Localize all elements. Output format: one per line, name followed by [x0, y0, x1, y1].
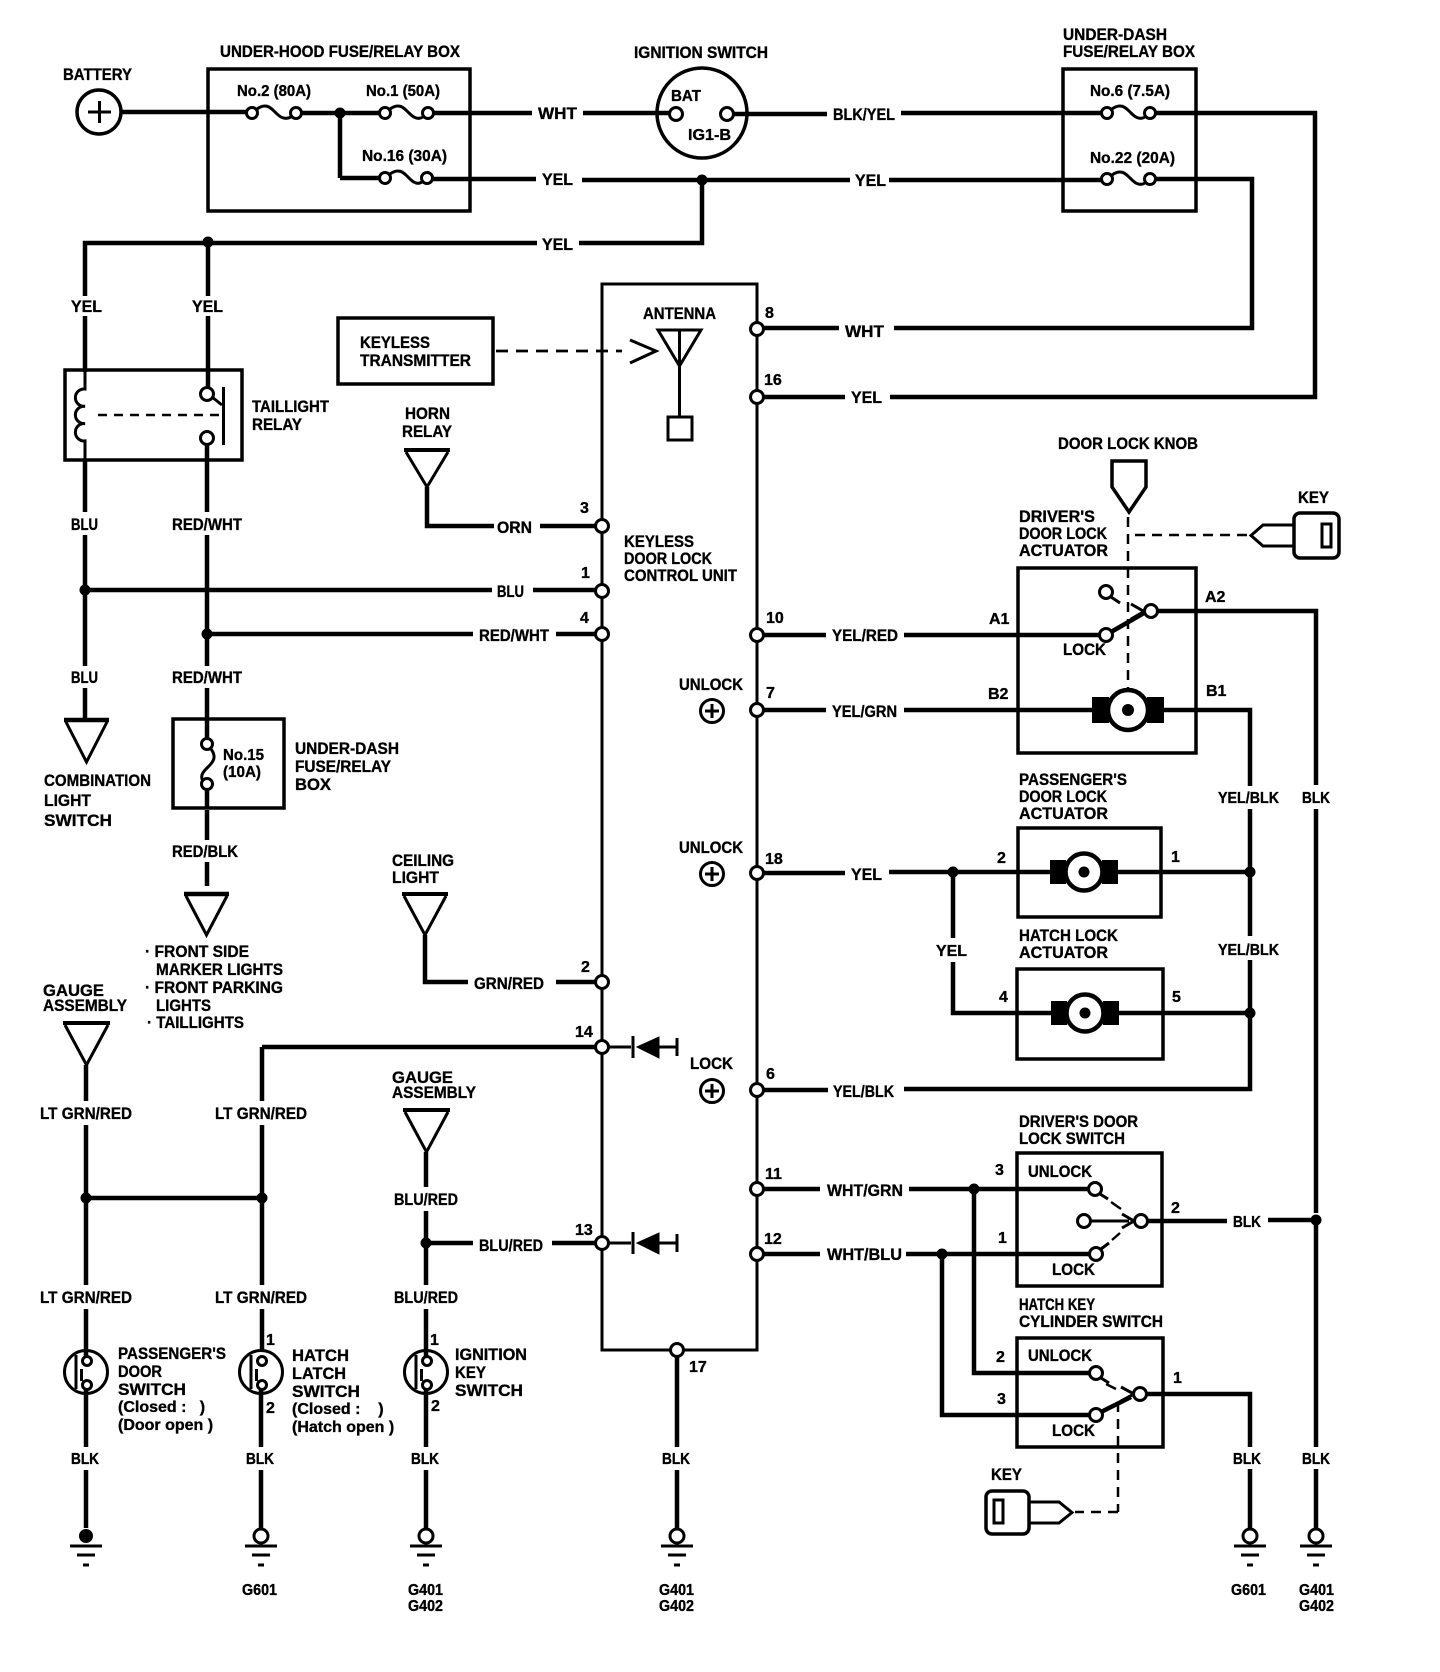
svg-text:SWITCH: SWITCH: [44, 811, 112, 830]
svg-text:G601: G601: [242, 1582, 277, 1599]
wire junction down to fuse16: [338, 113, 343, 178]
node junction row243: [203, 237, 214, 248]
svg-text:1: 1: [581, 565, 590, 582]
svg-text:ORN: ORN: [497, 518, 532, 537]
svg-text:LOCK: LOCK: [1063, 640, 1107, 659]
svg-text:LATCH: LATCH: [292, 1364, 346, 1383]
svg-text:1: 1: [1173, 1370, 1182, 1387]
svg-text:YEL/BLK: YEL/BLK: [1218, 942, 1279, 959]
svg-text:RELAY: RELAY: [252, 415, 303, 434]
wire WHT fuse1 to ignition: [433, 104, 670, 123]
dashed radio link transmitter to antenna: [496, 340, 656, 363]
fuse No.15 (10A): [202, 719, 265, 808]
horn relay: [402, 404, 453, 487]
front lights list: [145, 942, 283, 1032]
unlock symbol lower: [679, 838, 744, 886]
svg-text:BOX: BOX: [295, 775, 332, 794]
pin 1: [581, 565, 609, 598]
svg-text:HORN: HORN: [405, 404, 450, 423]
svg-text:CYLINDER SWITCH: CYLINDER SWITCH: [1019, 1312, 1163, 1331]
pin 17: [671, 1344, 707, 1377]
pin 11: [751, 1166, 783, 1196]
pin 12: [751, 1231, 782, 1261]
ignition switch: [634, 43, 768, 158]
passenger actuator motor: [1050, 854, 1118, 891]
svg-text:BLK: BLK: [1233, 1214, 1261, 1231]
key upper: [1251, 488, 1339, 558]
svg-text:IGNITION: IGNITION: [455, 1345, 527, 1364]
svg-text:2: 2: [1171, 1200, 1180, 1217]
svg-text:YEL: YEL: [851, 388, 882, 407]
wire A2 to BLK column: [1158, 589, 1316, 785]
hatch lock actuator: [1017, 926, 1163, 1059]
svg-text:TRANSMITTER: TRANSMITTER: [360, 351, 471, 370]
svg-text:KEY: KEY: [991, 1465, 1023, 1484]
node junction YEL/BLK x1250 row1013: [1245, 1008, 1256, 1019]
pin 2: [581, 959, 609, 989]
svg-text:5: 5: [1172, 989, 1181, 1006]
svg-text:6: 6: [766, 1066, 775, 1083]
svg-text:BLK: BLK: [1302, 1451, 1330, 1468]
combination light switch arrow: [44, 720, 151, 830]
node junction YEL/BLK x1250 row872: [1245, 867, 1256, 878]
wire fuse2 to junction: [301, 111, 340, 116]
svg-text:BLK: BLK: [246, 1451, 274, 1468]
svg-text:MARKER LIGHTS: MARKER LIGHTS: [156, 960, 283, 979]
wire YEL right drop to relay switch: [192, 242, 223, 390]
wire row1198 connecting columns: [86, 1196, 262, 1201]
svg-text:FUSE/RELAY: FUSE/RELAY: [295, 757, 392, 776]
node junction under-hood: [335, 108, 346, 119]
svg-text:16: 16: [764, 372, 782, 389]
svg-text:BLK: BLK: [662, 1451, 690, 1468]
svg-text:ACTUATOR: ACTUATOR: [1019, 943, 1108, 962]
svg-text:BLU: BLU: [71, 515, 98, 534]
svg-text:14: 14: [575, 1024, 593, 1041]
svg-text:· FRONT PARKING: · FRONT PARKING: [145, 978, 283, 997]
svg-text:· FRONT SIDE: · FRONT SIDE: [145, 942, 249, 961]
svg-text:KEYLESS: KEYLESS: [360, 333, 430, 352]
wire GRN/RED ceiling light to pin2: [425, 935, 595, 993]
svg-text:17: 17: [689, 1359, 707, 1376]
svg-text:ASSEMBLY: ASSEMBLY: [43, 996, 128, 1015]
wire YEL/BLK down and left to pin6: [764, 1013, 1250, 1101]
wire pin14 row to control unit: [262, 1045, 595, 1050]
svg-text:4: 4: [580, 610, 589, 627]
svg-text:BAT: BAT: [671, 88, 701, 105]
svg-text:SWITCH: SWITCH: [118, 1380, 186, 1399]
svg-text:LT GRN/RED: LT GRN/RED: [215, 1104, 307, 1123]
wire battery to fuse box: [121, 110, 247, 115]
fuse No.16 (30A): [340, 148, 447, 184]
wire BLK column lower segment: [1302, 1220, 1330, 1528]
diode at pin 14: [609, 1036, 677, 1058]
taillight relay dashed actuation line: [98, 414, 221, 417]
wire BLK ignition key switch to ground: [411, 1389, 439, 1528]
hatch actuator motor: [1051, 995, 1119, 1032]
wire BLK/YEL ignition to under-dash fuse box: [734, 105, 1101, 124]
svg-text:COMBINATION: COMBINATION: [44, 771, 151, 790]
svg-text:RED/WHT: RED/WHT: [172, 668, 243, 687]
svg-text:No.22 (20A): No.22 (20A): [1090, 150, 1175, 167]
svg-text:2: 2: [997, 850, 1006, 867]
fuse No.22 (20A): [1090, 150, 1175, 185]
wire hatch key switch pin1 BLK to ground: [1147, 1370, 1261, 1528]
battery: [63, 65, 133, 134]
pin 4: [580, 610, 609, 641]
driver's actuator motor: [1092, 690, 1164, 730]
hatch latch switch: [240, 1332, 395, 1436]
ground G601 hatch latch: [242, 1529, 277, 1599]
wire RED/WHT to pin4: [207, 626, 595, 645]
svg-text:YEL: YEL: [542, 170, 573, 189]
svg-text:BLK: BLK: [1233, 1451, 1261, 1468]
front lights arrow: [184, 894, 229, 935]
wire LT GRN/RED mid column from pin14 row: [215, 1047, 307, 1352]
ceiling light: [392, 851, 454, 935]
svg-text:B1: B1: [1206, 683, 1227, 700]
svg-text:DOOR LOCK KNOB: DOOR LOCK KNOB: [1058, 434, 1198, 453]
svg-text:WHT/BLU: WHT/BLU: [827, 1245, 902, 1264]
svg-text:4: 4: [999, 989, 1008, 1006]
wire YEL/BLK column passenger to hatch: [1218, 872, 1279, 1013]
driver's door lock switch: [1017, 1112, 1162, 1286]
svg-text:BLK: BLK: [411, 1451, 439, 1468]
svg-text:G401: G401: [408, 1582, 443, 1599]
driver's door lock switch contacts: [1078, 1183, 1148, 1261]
pin 7: [751, 685, 776, 717]
node junction BLU/RED row1243: [421, 1238, 432, 1249]
svg-text:No.6 (7.5A): No.6 (7.5A): [1090, 83, 1170, 100]
svg-text:ANTENNA: ANTENNA: [643, 304, 716, 323]
svg-text:IG1-B: IG1-B: [688, 127, 731, 144]
svg-text:UNDER-HOOD FUSE/RELAY BOX: UNDER-HOOD FUSE/RELAY BOX: [220, 42, 461, 61]
svg-text:G402: G402: [659, 1598, 694, 1615]
svg-text:WHT: WHT: [538, 104, 578, 123]
svg-text:ACTUATOR: ACTUATOR: [1019, 541, 1108, 560]
svg-text:G401: G401: [659, 1582, 694, 1599]
node junction BLU row590: [80, 585, 91, 596]
svg-text:1: 1: [1171, 849, 1180, 866]
svg-text:YEL: YEL: [936, 943, 967, 960]
svg-text:1: 1: [430, 1332, 439, 1349]
svg-text:ASSEMBLY: ASSEMBLY: [392, 1083, 477, 1102]
svg-text:SWITCH: SWITCH: [292, 1382, 360, 1401]
taillight relay switch: [201, 387, 224, 445]
svg-text:BLU: BLU: [497, 582, 524, 601]
svg-text:BLU/RED: BLU/RED: [394, 1288, 458, 1307]
svg-text:KEY: KEY: [455, 1363, 487, 1382]
svg-text:G402: G402: [1299, 1598, 1334, 1615]
svg-text:LT GRN/RED: LT GRN/RED: [40, 1288, 132, 1307]
svg-text:UNLOCK: UNLOCK: [679, 838, 744, 857]
svg-text:DOOR: DOOR: [118, 1362, 162, 1381]
wire YEL/RED pin10 to A1: [764, 611, 1100, 645]
ignition key switch: [405, 1332, 528, 1415]
under-dash fuse/relay box No.15: [173, 719, 399, 808]
wire B1 to YEL/BLK column: [1164, 683, 1279, 868]
svg-text:BLK/YEL: BLK/YEL: [833, 105, 895, 124]
wire BLU/RED to pin13: [426, 1236, 595, 1255]
svg-text:No.2 (80A): No.2 (80A): [237, 83, 311, 100]
svg-text:7: 7: [766, 685, 775, 702]
svg-text:A1: A1: [989, 611, 1010, 628]
wire fuse6 right and down to pin16 YEL: [764, 113, 1315, 407]
diode at pin 13: [609, 1232, 677, 1254]
svg-text:(Closed : ): (Closed : ): [118, 1399, 205, 1416]
wire YEL junction down and left: [579, 180, 702, 243]
wire YEL x953 down to hatch actuator: [936, 872, 1052, 1013]
svg-text:TAILLIGHT: TAILLIGHT: [252, 397, 330, 416]
svg-text:3: 3: [580, 500, 589, 517]
wire WHT/GRN x974 down to hatch key switch: [974, 1189, 1089, 1373]
svg-text:2: 2: [266, 1400, 275, 1417]
wire YEL/GRN pin7 to B2: [764, 686, 1093, 721]
wire ORN horn relay to pin3: [427, 487, 595, 537]
svg-text:(Door open ): (Door open ): [118, 1417, 213, 1434]
wire BLU/RED column: [394, 1152, 458, 1357]
wire junction to fuse1: [340, 111, 380, 116]
svg-text:10: 10: [766, 610, 784, 627]
passenger's door switch: [65, 1344, 227, 1434]
antenna: [643, 304, 716, 440]
svg-text:2: 2: [431, 1398, 440, 1415]
hatch key cylinder switch: [1017, 1295, 1163, 1447]
svg-text:YEL: YEL: [542, 235, 573, 254]
svg-text:(Hatch open ): (Hatch open ): [292, 1419, 394, 1436]
node YEL junction: [697, 175, 708, 186]
svg-text:G601: G601: [1231, 1582, 1266, 1599]
key lower: [986, 1465, 1072, 1534]
svg-text:RELAY: RELAY: [402, 422, 453, 441]
svg-text:(Closed : ): (Closed : ): [292, 1401, 384, 1418]
svg-text:YEL: YEL: [192, 297, 223, 316]
pin 8: [751, 305, 775, 336]
svg-text:No.16 (30A): No.16 (30A): [362, 148, 447, 165]
svg-text:LOCK: LOCK: [690, 1054, 734, 1073]
ground G401/G402 pin17: [659, 1529, 694, 1615]
wire WHT/BLU pin12 to switch: [764, 1230, 1090, 1264]
svg-text:LT GRN/RED: LT GRN/RED: [40, 1104, 132, 1123]
pin 16: [751, 372, 782, 404]
driver's door lock actuator: [1018, 507, 1196, 753]
wire BLK hatch latch switch to ground: [246, 1389, 274, 1528]
svg-text:RED/WHT: RED/WHT: [172, 515, 243, 534]
svg-text:11: 11: [765, 1166, 782, 1183]
svg-text:IGNITION SWITCH: IGNITION SWITCH: [634, 43, 768, 62]
svg-text:ACTUATOR: ACTUATOR: [1019, 804, 1108, 823]
ground passenger door switch: [70, 1529, 102, 1565]
wire BLK column label: [1302, 790, 1330, 1213]
wire BLK passenger door switch to ground: [71, 1389, 99, 1528]
svg-text:8: 8: [765, 305, 774, 322]
svg-text:YEL/BLK: YEL/BLK: [1218, 790, 1279, 807]
wire BLU to pin1: [85, 582, 595, 601]
pin 18: [751, 851, 783, 880]
svg-text:UNLOCK: UNLOCK: [679, 675, 744, 694]
svg-text:3: 3: [995, 1162, 1004, 1179]
svg-text:A2: A2: [1205, 589, 1226, 606]
driver's actuator switch: [1063, 586, 1158, 660]
wire passenger pin1 to YEL/BLK column: [1118, 849, 1251, 872]
wire WHT/BLU x942 down to hatch key switch: [942, 1254, 1090, 1415]
svg-text:(10A): (10A): [223, 764, 261, 781]
svg-text:BLU/RED: BLU/RED: [479, 1236, 543, 1255]
svg-text:LIGHT: LIGHT: [392, 868, 440, 887]
svg-text:· TAILLIGHTS: · TAILLIGHTS: [147, 1013, 244, 1032]
svg-text:12: 12: [764, 1231, 782, 1248]
svg-text:RED/WHT: RED/WHT: [479, 626, 550, 645]
passenger's door lock actuator: [1018, 770, 1161, 917]
node junction mid row1198: [257, 1193, 268, 1204]
svg-text:GRN/RED: GRN/RED: [474, 974, 544, 993]
svg-text:2: 2: [996, 1349, 1005, 1366]
keyless door lock control unit box: [602, 284, 757, 1350]
svg-text:B2: B2: [988, 686, 1009, 703]
dashed key linkage lower: [1075, 1402, 1118, 1512]
gauge assembly mid: [392, 1068, 477, 1152]
svg-text:2: 2: [581, 959, 590, 976]
keyless transmitter: [338, 318, 493, 384]
svg-text:RED/BLK: RED/BLK: [172, 842, 239, 861]
svg-text:SWITCH: SWITCH: [455, 1381, 523, 1400]
pin 13: [575, 1222, 609, 1250]
svg-text:LOCK SWITCH: LOCK SWITCH: [1019, 1129, 1125, 1148]
node junction WHT/GRN x974: [969, 1184, 980, 1195]
wire YEL pin18 to passenger actuator: [764, 850, 1051, 884]
svg-text:YEL: YEL: [851, 865, 882, 884]
dashed knob linkage: [1127, 517, 1130, 702]
wire hatch pin5 to YEL/BLK column: [1119, 989, 1251, 1013]
svg-text:No.15: No.15: [223, 747, 264, 764]
wire LT GRN/RED left column: [40, 1065, 132, 1357]
wire YEL fuse16 to junction702: [432, 170, 1101, 190]
svg-text:1: 1: [998, 1230, 1007, 1247]
wire switch pin2 BLK to ground column: [1148, 1200, 1316, 1231]
svg-text:1: 1: [266, 1332, 275, 1349]
svg-text:BLU: BLU: [71, 668, 98, 687]
ground G601 right: [1231, 1529, 1266, 1599]
svg-text:BLK: BLK: [1302, 790, 1330, 807]
svg-text:No.1 (50A): No.1 (50A): [366, 83, 440, 100]
door lock knob: [1058, 434, 1198, 512]
svg-text:UNLOCK: UNLOCK: [1028, 1162, 1093, 1181]
svg-text:WHT: WHT: [845, 322, 885, 341]
svg-text:13: 13: [575, 1222, 593, 1239]
svg-text:G402: G402: [408, 1598, 443, 1615]
svg-text:CONTROL UNIT: CONTROL UNIT: [624, 566, 738, 585]
svg-text:WHT/GRN: WHT/GRN: [827, 1181, 903, 1200]
pin 14: [575, 1024, 609, 1054]
unlock symbol upper: [679, 675, 744, 723]
wire RED/WHT relay to fuse15: [172, 444, 243, 719]
node junction BLK x1316: [1311, 1215, 1322, 1226]
svg-text:YEL: YEL: [71, 297, 102, 316]
svg-text:KEY: KEY: [1298, 488, 1330, 507]
node junction left row1198: [81, 1193, 92, 1204]
svg-text:LOCK: LOCK: [1052, 1260, 1096, 1279]
svg-text:BATTERY: BATTERY: [63, 65, 133, 84]
taillight relay: [65, 370, 330, 460]
svg-text:UNLOCK: UNLOCK: [1028, 1346, 1093, 1365]
fuse No.6 (7.5A): [1090, 83, 1170, 119]
node junction WHT/BLU x942: [937, 1249, 948, 1260]
pin 3: [580, 500, 609, 533]
svg-text:HATCH: HATCH: [292, 1346, 349, 1365]
pin 6: [751, 1066, 776, 1097]
svg-text:PASSENGER'S: PASSENGER'S: [118, 1344, 226, 1363]
under-hood fuse/relay box: [208, 42, 470, 211]
svg-text:YEL/RED: YEL/RED: [832, 626, 898, 645]
wire YEL left drop to relay coil: [71, 297, 102, 372]
ground G401/G402 right: [1299, 1529, 1334, 1615]
svg-text:YEL/GRN: YEL/GRN: [832, 702, 897, 721]
wire RED/BLK dashed to lights arrow: [172, 810, 239, 886]
wire BLK pin17 to ground: [662, 1356, 690, 1528]
svg-text:BLU/RED: BLU/RED: [394, 1190, 458, 1209]
node junction RED/WHT row634: [202, 629, 213, 640]
ground G401/G402 ignition key: [408, 1529, 443, 1615]
svg-text:LOCK: LOCK: [1052, 1421, 1096, 1440]
svg-text:3: 3: [997, 1391, 1006, 1408]
node junction YEL x953: [948, 867, 959, 878]
pin 10: [751, 610, 784, 642]
svg-text:YEL/BLK: YEL/BLK: [833, 1082, 895, 1101]
fuse No.1 (50A): [366, 83, 440, 119]
dashed key linkage upper: [1130, 534, 1247, 537]
taillight relay coil: [75, 372, 85, 460]
fuse No.2 (80A): [237, 83, 311, 119]
svg-text:UNDER-DASH: UNDER-DASH: [295, 739, 399, 758]
gauge assembly left: [43, 981, 128, 1065]
lock symbol: [690, 1054, 734, 1103]
svg-text:G401: G401: [1299, 1582, 1334, 1599]
svg-text:FUSE/RELAY BOX: FUSE/RELAY BOX: [1063, 42, 1196, 61]
wire BLU relay to combination light switch: [71, 460, 98, 719]
wire YEL horizontal row243: [85, 235, 573, 296]
hatch key switch contacts: [1090, 1367, 1147, 1422]
wire fuse22 right and down to pin8 WHT: [764, 179, 1252, 341]
svg-text:18: 18: [765, 851, 783, 868]
wire WHT/GRN pin11 to switch: [764, 1162, 1089, 1200]
under-dash fuse/relay box: [1063, 25, 1196, 211]
svg-text:LIGHT: LIGHT: [44, 791, 92, 810]
svg-text:YEL: YEL: [855, 171, 886, 190]
svg-text:LT GRN/RED: LT GRN/RED: [215, 1288, 307, 1307]
svg-text:BLK: BLK: [71, 1451, 99, 1468]
